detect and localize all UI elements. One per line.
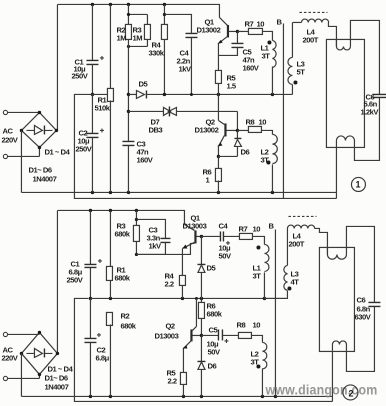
svg-text:680k: 680k xyxy=(114,273,130,282)
wire: node B vertical line circuit 2 xyxy=(274,229,276,396)
capacitor C4 (2.2n 1kV) xyxy=(164,14,197,94)
svg-text:10: 10 xyxy=(252,320,260,329)
svg-text:D1 ~ D4: D1 ~ D4 xyxy=(44,147,70,156)
wire: cap midpoint to lamp return (left column + return line circuit 1) xyxy=(74,94,336,198)
inductor L3 (5T) xyxy=(288,22,297,94)
wire: node B vertical line xyxy=(282,23,284,198)
svg-text:C6: C6 xyxy=(356,295,365,304)
label C3 3.3n 1kV xyxy=(146,225,162,250)
transistor Q1 (D13002) xyxy=(217,17,237,70)
node: Q1 base dot circuit 2 xyxy=(200,235,203,238)
svg-text:6.8μ: 6.8μ xyxy=(95,353,109,362)
resistor R4 (2.2) circuit 2 xyxy=(179,275,185,298)
svg-text:R8: R8 xyxy=(236,320,245,329)
wire: top B+ rail circuit 2 xyxy=(57,210,184,224)
node: Q2 base dot xyxy=(236,129,239,132)
resistor R5 (1.5) xyxy=(215,70,221,94)
svg-text:R7: R7 xyxy=(244,19,253,28)
label C4 10u 50V xyxy=(218,221,232,260)
svg-text:D5: D5 xyxy=(138,79,148,88)
svg-text:160V: 160V xyxy=(242,63,259,72)
wire: R2/R3 column down through D5 D7 C3 to bottom rail xyxy=(127,39,130,141)
label C1 6.8u 250V xyxy=(66,259,83,284)
inductor L1 (3T) circuit 2 xyxy=(256,244,269,298)
wire: lamp bottom-left pin to return line xyxy=(335,147,337,198)
label R7 10 xyxy=(244,19,264,28)
svg-text:200T: 200T xyxy=(302,35,318,44)
capacitor C1 (10u 250V) xyxy=(86,4,104,94)
wire: left column from rail to bridge + xyxy=(56,4,58,130)
label Q1 D13003 xyxy=(182,213,206,230)
svg-text:D6: D6 xyxy=(240,147,249,156)
label C5 10u 50V circuit 2 xyxy=(206,325,221,356)
svg-text:AC: AC xyxy=(2,126,13,135)
label D5 xyxy=(138,79,148,88)
svg-text:220V: 220V xyxy=(1,353,18,362)
svg-text:R8: R8 xyxy=(245,117,254,126)
label R3 1M xyxy=(132,25,142,42)
svg-text:1kV: 1kV xyxy=(148,241,162,250)
svg-text:680k: 680k xyxy=(120,321,136,330)
diode D5 circuit 2 xyxy=(197,236,205,298)
svg-text:1M: 1M xyxy=(132,33,142,42)
label R8 10 xyxy=(245,117,266,126)
svg-text:1: 1 xyxy=(355,179,360,189)
resistor R4 (330k) xyxy=(161,4,167,94)
svg-text:680k: 680k xyxy=(206,309,222,318)
svg-text:250V: 250V xyxy=(75,144,92,153)
inductor L4 (200T) with core xyxy=(292,12,336,46)
wire: bridge minus column to bottom rail circuit 2 xyxy=(20,353,22,396)
label R3 680k xyxy=(114,221,130,238)
bridge rectifier D1~D4 (circuit 2) xyxy=(20,331,59,376)
wire: R3/C3 node to Q1 base xyxy=(136,243,194,254)
svg-text:630V: 630V xyxy=(354,312,371,321)
svg-text:250V: 250V xyxy=(71,71,88,80)
label R8 10 circuit 2 xyxy=(236,320,260,329)
label Q1 D13002 xyxy=(196,17,220,34)
label L2 3T circuit 2 xyxy=(250,349,259,366)
svg-text:1N4007: 1N4007 xyxy=(32,174,56,183)
label C2 6.8u xyxy=(95,345,109,362)
svg-text:4T: 4T xyxy=(290,277,299,286)
label L1 3T xyxy=(260,43,270,60)
label R6 680k circuit 2 xyxy=(206,301,222,318)
AC source terminals circuit 2 xyxy=(3,332,39,380)
transistor Q1 (D13003) circuit 2 xyxy=(182,224,201,275)
svg-text:1.5: 1.5 xyxy=(226,81,236,90)
svg-text:680k: 680k xyxy=(114,229,130,238)
label R7 10 circuit 2 xyxy=(238,224,260,233)
wire: cap midpoint to lamp return (left column + return line circuit 2) xyxy=(74,298,332,401)
svg-text:2.2: 2.2 xyxy=(164,279,173,288)
resistor R2 (1M) xyxy=(125,4,131,39)
svg-text:1: 1 xyxy=(205,175,210,184)
svg-text:250V: 250V xyxy=(66,275,83,284)
svg-text:D1~ D6: D1~ D6 xyxy=(44,373,67,382)
label D1~D6 1N4007 (circuit 1) xyxy=(28,165,56,183)
capacitor C5 (10u 50V) circuit 2 xyxy=(201,329,238,343)
node: Q2 base dot circuit 2 xyxy=(200,334,203,337)
watermark www.diangon.com xyxy=(265,381,378,397)
capacitor C1 (6.8u 250V) circuit 2 xyxy=(84,210,102,298)
label D6 xyxy=(240,147,249,156)
resistor R5 (2.2) circuit 2 xyxy=(180,372,186,396)
svg-text:10: 10 xyxy=(252,224,260,233)
svg-text:1kV: 1kV xyxy=(178,64,192,73)
svg-text:Q2: Q2 xyxy=(165,321,174,330)
label R2 680k xyxy=(120,311,136,330)
node: rail dots circuit 2 xyxy=(89,209,138,212)
wire: top B+ rail xyxy=(57,4,219,17)
svg-text:10: 10 xyxy=(256,19,264,28)
label Q2 D13003 circuit 2 xyxy=(154,321,178,340)
resistor R7 (10) circuit 2 xyxy=(239,233,264,244)
bridge rectifier D1~D4 (circuit 1) xyxy=(20,111,58,149)
capacitor C2 (10u 250V) xyxy=(86,94,104,192)
label R6 1 xyxy=(202,167,211,184)
diac D7 DB3 xyxy=(128,106,237,130)
label C4 2.2n 1kV xyxy=(176,48,192,73)
tube top filament circuit 2 xyxy=(327,247,346,259)
label D1~D4 (circuit 1) xyxy=(44,147,70,156)
label C5 47n 160V xyxy=(242,47,259,72)
label C6 5.6n 1.2kV xyxy=(360,92,379,116)
diode D6 circuit 2 xyxy=(197,335,205,396)
svg-text:1M: 1M xyxy=(116,33,126,42)
inductor L1 (3T) xyxy=(267,40,276,94)
svg-text:2: 2 xyxy=(348,388,353,398)
label AC 220V (circuit 2) xyxy=(1,345,18,362)
node: C1/C2 midpoint dot circuit 2 xyxy=(89,297,92,300)
marker circle 1 xyxy=(351,177,365,191)
label R4 2.2 xyxy=(164,271,174,288)
svg-text:2.2: 2.2 xyxy=(167,376,176,385)
wire: lamp right loop with C6 circuit 2 xyxy=(346,226,374,371)
svg-text:50V: 50V xyxy=(218,251,232,260)
tube bottom filament xyxy=(336,136,354,148)
wire: mid rail circuit 2 xyxy=(90,297,286,300)
capacitor C6 (5.6n 1.2kV) xyxy=(372,94,386,97)
node: bottom rail dots circuit 1 xyxy=(91,191,274,194)
resistor R3 (680k) circuit 2 xyxy=(133,210,139,256)
label D6 circuit 2 xyxy=(207,361,216,370)
svg-text:B: B xyxy=(268,221,274,230)
svg-text:3T: 3T xyxy=(252,271,261,280)
capacitor C3 (3.3n 1kV) circuit 2 xyxy=(136,219,170,254)
svg-text:1.2kV: 1.2kV xyxy=(360,107,379,116)
capacitor C2 (6.8u) circuit 2 xyxy=(84,298,101,396)
node: bottom rail dots circuit 2 xyxy=(89,395,277,398)
label D1~D6 1N4007 (circuit 2) xyxy=(44,373,68,391)
marker circle 2 xyxy=(343,385,358,400)
svg-text:R7: R7 xyxy=(238,224,247,233)
label L4 200T circuit 2 xyxy=(288,231,304,248)
svg-text:D6: D6 xyxy=(207,361,216,370)
AC source terminals circuit 1 xyxy=(3,110,39,158)
label L4 200T xyxy=(302,27,318,44)
svg-text:www.diangon.com: www.diangon.com xyxy=(265,381,378,397)
svg-text:D5: D5 xyxy=(206,263,216,272)
wire: left column circuit 2 xyxy=(56,210,58,353)
tube top filament xyxy=(336,39,350,50)
label L3 5T xyxy=(296,59,305,76)
label D7 DB3 xyxy=(148,117,162,134)
label C6 6.8n 630V circuit 2 xyxy=(354,295,371,321)
transistor Q2 (D13003) circuit 2 xyxy=(182,298,201,372)
resistor R3 (1M) xyxy=(127,13,151,48)
label Q2 D13002 xyxy=(194,117,218,134)
resistor R1 (510k) xyxy=(107,4,113,192)
resistor R1 (680k) circuit 2 xyxy=(106,210,112,298)
resistor R2 (680k) circuit 2 xyxy=(106,312,112,396)
svg-text:R2: R2 xyxy=(120,311,129,320)
label R5 1.5 xyxy=(226,73,236,90)
label AC 220V (circuit 1) xyxy=(1,126,18,144)
label R2 1M xyxy=(116,25,126,42)
svg-text:1N4007: 1N4007 xyxy=(44,382,68,391)
inductor L2 (3T) circuit 2 xyxy=(256,342,266,396)
label L2 3T xyxy=(260,147,269,164)
label R4 330k xyxy=(148,40,164,57)
label R1 510k xyxy=(94,95,110,112)
svg-text:C5: C5 xyxy=(208,325,218,334)
svg-text:B: B xyxy=(276,17,282,26)
label B circuit 2 xyxy=(268,221,274,230)
svg-text:5T: 5T xyxy=(296,67,305,76)
inductor L2 (3T) xyxy=(266,134,277,192)
label L1 3T circuit 2 xyxy=(252,263,261,280)
transistor Q2 (D13002) xyxy=(217,94,237,156)
wire: bridge minus column down to bottom rail (circuit 1) xyxy=(20,130,22,192)
resistor R7 (10) xyxy=(237,28,272,40)
svg-text:3T: 3T xyxy=(260,155,269,164)
svg-text:200T: 200T xyxy=(288,239,304,248)
resistor R6 (1) xyxy=(215,156,221,192)
svg-text:50V: 50V xyxy=(207,347,221,356)
svg-text:220V: 220V xyxy=(1,135,18,144)
wire: mid rail (node B) circuit 1 xyxy=(163,93,293,96)
node: Q2 emitter dot xyxy=(217,155,220,158)
resistor R8 (10) xyxy=(237,126,272,134)
svg-text:DB3: DB3 xyxy=(148,125,162,134)
node: Q1 base dot xyxy=(236,30,239,33)
label R1 680k xyxy=(114,265,130,282)
diode D6 xyxy=(218,130,241,156)
svg-text:510k: 510k xyxy=(94,103,110,112)
svg-text:D1 ~ D4: D1 ~ D4 xyxy=(47,364,73,373)
svg-text:C4: C4 xyxy=(218,221,228,230)
label R5 2.2 circuit 2 xyxy=(166,368,176,385)
inductor L4 (200T) circuit 2 with core xyxy=(287,216,327,254)
capacitor C5 (47n 160V) xyxy=(218,31,243,55)
resistor R6 (680k) circuit 2 xyxy=(198,298,204,335)
svg-text:3T: 3T xyxy=(261,51,270,60)
diode D5 xyxy=(128,90,164,98)
node: C1/C2 midpoint dot xyxy=(91,93,94,96)
svg-text:D13003: D13003 xyxy=(182,221,206,230)
label B xyxy=(276,17,282,26)
svg-text:D13002: D13002 xyxy=(194,125,218,134)
fluorescent tube circuit 1 xyxy=(326,39,364,147)
capacitor C6 (6.8n 630V) circuit 2 xyxy=(368,302,380,306)
svg-text:10: 10 xyxy=(258,117,266,126)
wire: bottom rail circuit 1 xyxy=(21,191,336,193)
tube bottom filament circuit 2 xyxy=(332,341,346,350)
label D5 circuit 2 xyxy=(206,263,216,272)
svg-text:D1~ D6: D1~ D6 xyxy=(28,165,51,174)
svg-text:D13002: D13002 xyxy=(196,25,220,34)
wire: lamp right loop with C6 xyxy=(350,20,379,160)
wire: lamp bottom-left pin to return line circuit 2 xyxy=(331,350,333,401)
capacitor C4 (10u 50V) circuit 2 xyxy=(201,231,239,245)
capacitor C3 (47n 160V) xyxy=(122,141,134,192)
label L3 4T circuit 2 xyxy=(290,269,299,286)
label C3 47n 160V xyxy=(136,139,153,164)
inductor L3 (4T) circuit 2 xyxy=(264,228,291,298)
svg-text:3T: 3T xyxy=(250,357,259,366)
svg-text:330k: 330k xyxy=(148,48,164,57)
resistor R8 (10) circuit 2 xyxy=(238,332,262,342)
fluorescent tube circuit 2 xyxy=(319,247,354,351)
label C1 10u 250V xyxy=(71,57,88,80)
svg-text:160V: 160V xyxy=(136,155,153,164)
svg-text:D13003: D13003 xyxy=(154,331,178,340)
node: rail junction dots xyxy=(91,3,166,6)
wire: bottom rail circuit 2 xyxy=(21,395,332,397)
label C2 10u 250V xyxy=(75,128,92,153)
label D1~D4 (circuit 2) xyxy=(47,364,73,373)
